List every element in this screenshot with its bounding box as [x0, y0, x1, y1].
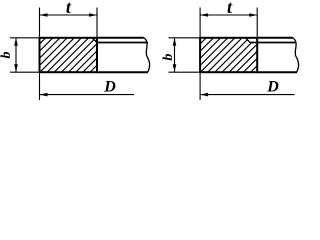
svg-text:D: D — [103, 78, 116, 95]
arrow b up — [14, 38, 18, 46]
break line curve — [293, 38, 299, 73]
ring section rectangle — [200, 38, 257, 72]
b extension top — [169, 37, 201, 39]
dimension line D — [200, 94, 294, 96]
shaft top edge — [257, 37, 292, 39]
chamfer edge — [92, 38, 97, 43]
dimension line D — [40, 94, 135, 96]
break line curve — [144, 38, 150, 73]
b extension top — [10, 37, 40, 39]
extension line right of t — [256, 8, 258, 38]
arrow t right — [89, 13, 97, 17]
svg-text:b: b — [0, 52, 14, 59]
dimension line t — [200, 14, 257, 16]
dimension line b — [15, 38, 17, 72]
arrow D left — [200, 93, 208, 97]
arrow b down — [173, 64, 177, 72]
chamfer edge — [245, 38, 250, 43]
arrow t left — [40, 13, 48, 17]
arrow t left — [200, 13, 208, 17]
shaft bottom edge — [97, 71, 148, 73]
shaft bottom edge — [257, 71, 297, 73]
dimension line t — [40, 14, 98, 16]
shaft top edge — [97, 37, 144, 39]
b extension bottom — [169, 71, 201, 73]
ring section rectangle — [40, 38, 98, 72]
extension line left of t and D — [39, 8, 41, 101]
hatching — [161, 31, 306, 76]
arrow b up — [173, 38, 177, 46]
shaft chamfer edge line — [250, 42, 296, 44]
arrow t right — [249, 13, 257, 17]
svg-text:D: D — [266, 78, 279, 95]
hatching — [0, 31, 145, 76]
extension line left of t and D — [199, 8, 201, 101]
extension line right of t — [96, 8, 98, 38]
b extension bottom — [10, 71, 40, 73]
shaft chamfer edge line — [97, 42, 148, 44]
arrow b down — [14, 64, 18, 72]
dimension line b — [174, 38, 176, 72]
svg-text:b: b — [161, 54, 176, 61]
arrow D left — [40, 93, 48, 97]
